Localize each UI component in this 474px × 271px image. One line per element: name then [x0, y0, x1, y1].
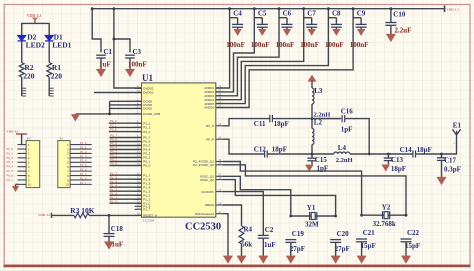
svg-text:P0_0: P0_0 — [7, 147, 14, 151]
svg-text:P2_0: P2_0 — [143, 130, 150, 134]
svg-text:100nF: 100nF — [276, 41, 295, 49]
capacitor C9 100nF — [353, 17, 361, 19]
svg-text:P1_1: P1_1 — [80, 181, 87, 185]
connector J2 body — [58, 141, 70, 188]
wire C21 ground — [361, 242, 363, 256]
wire GND pin group — [110, 100, 142, 102]
svg-text:2.2nH: 2.2nH — [314, 111, 331, 118]
wire branch to C3 — [114, 39, 130, 52]
capacitor C4 100nF — [230, 17, 238, 19]
wire LED supply — [22, 23, 50, 35]
svg-text:C2: C2 — [265, 226, 274, 234]
wire XOSC_Q2 — [223, 180, 336, 216]
wire junction to C16 — [312, 118, 340, 120]
svg-text:P0_4: P0_4 — [7, 165, 14, 169]
ground C6 — [283, 30, 290, 35]
svg-text:P0_3: P0_3 — [7, 160, 14, 164]
ground R4 — [237, 256, 246, 262]
ground C22 — [402, 256, 411, 262]
svg-text:P1_5: P1_5 — [80, 163, 87, 167]
svg-text:C7: C7 — [307, 10, 316, 18]
wire RBIAS — [223, 205, 242, 226]
svg-text:18pF: 18pF — [272, 146, 287, 154]
ground U1 digital — [71, 115, 79, 121]
wire rail drop for C8 — [216, 9, 329, 104]
wire X32K_Q1 — [223, 162, 362, 216]
svg-text:100nF: 100nF — [300, 41, 319, 49]
power port VDD 3.3 (right end of rail) — [444, 5, 446, 12]
svg-text:C14: C14 — [400, 146, 413, 154]
capacitor C18 1uF — [104, 234, 115, 237]
capacitor C17 0.3pF — [441, 154, 443, 157]
wire R1 to pin — [48, 77, 50, 96]
wire DCOUPL — [223, 192, 263, 235]
wire Y1 left — [289, 215, 292, 218]
svg-text:18pF: 18pF — [274, 120, 289, 128]
capacitor C16 1pF — [342, 115, 345, 122]
svg-text:18pF: 18pF — [417, 146, 432, 154]
svg-text:15pF: 15pF — [361, 242, 376, 250]
capacitor C8 100nF — [328, 17, 336, 19]
pin ladder under R1 — [49, 88, 54, 96]
wire C12 to L junction — [267, 153, 312, 155]
svg-text:C16: C16 — [341, 108, 354, 116]
wires P1 port — [110, 174, 142, 176]
svg-text:32.768k: 32.768k — [373, 220, 396, 228]
svg-text:L4: L4 — [338, 144, 347, 152]
wire rail drop for C7 — [216, 9, 304, 100]
svg-text:C12: C12 — [254, 146, 267, 154]
wire VDD to J1 pin1 — [21, 134, 23, 145]
ground C13 — [387, 161, 389, 165]
svg-text:LED1: LED1 — [52, 41, 71, 50]
svg-text:C3: C3 — [133, 48, 142, 56]
svg-text:18pF: 18pF — [391, 165, 406, 173]
svg-text:P0_1: P0_1 — [7, 151, 14, 155]
wire C19 ground — [290, 242, 292, 256]
capacitor C5 100nF — [254, 17, 262, 19]
svg-text:CC2530: CC2530 — [143, 218, 155, 222]
ground C18 — [104, 242, 113, 249]
svg-text:R4: R4 — [244, 226, 253, 234]
capacitor C20 27pF — [334, 215, 337, 218]
svg-text:P1_7: P1_7 — [143, 208, 150, 212]
wire VDD3.3 rail — [92, 8, 445, 10]
svg-text:C10: C10 — [393, 11, 406, 19]
svg-text:Y1: Y1 — [307, 204, 316, 212]
svg-text:CC2530: CC2530 — [185, 222, 221, 233]
wire X32K_Q2 — [223, 165, 406, 215]
wire rail drop for C4 — [216, 9, 230, 88]
ground J1 — [12, 187, 18, 192]
wire RF_N — [223, 119, 270, 126]
svg-text:P1_4: P1_4 — [80, 159, 87, 163]
capacitor C6 100nF — [279, 17, 287, 19]
svg-text:C20: C20 — [337, 230, 350, 238]
svg-text:10: 10 — [28, 183, 32, 187]
svg-text:C1: C1 — [104, 48, 113, 56]
wire J1 pin10 to ground — [16, 183, 18, 185]
wire C20 ground — [335, 242, 337, 256]
svg-text:27pF: 27pF — [290, 245, 305, 253]
resistor R1 220 — [47, 63, 52, 78]
svg-text:P1_0: P1_0 — [80, 141, 87, 145]
svg-text:2.2uF: 2.2uF — [395, 27, 412, 35]
wire rail to C1 — [92, 9, 101, 53]
ground C4 — [234, 30, 241, 35]
diode D1 LED1 — [45, 35, 53, 41]
svg-text:P0_6: P0_6 — [7, 173, 14, 177]
svg-text:32M: 32M — [305, 221, 319, 229]
ground exposed pad — [224, 256, 233, 262]
capacitor C15 1pF — [311, 154, 313, 158]
U1 left pin stubs and labels — [135, 86, 160, 218]
ground C19 — [286, 256, 295, 262]
wire C11 to L junction — [272, 118, 341, 120]
wire C17 to ground — [441, 160, 443, 177]
svg-text:RBIAS: RBIAS — [205, 203, 214, 207]
wire R2 to pin — [21, 77, 23, 96]
capacitor C22 15pF — [405, 214, 408, 217]
wire Y2 link — [362, 214, 406, 216]
svg-text:U1: U1 — [142, 73, 153, 83]
svg-text:P0_0: P0_0 — [110, 162, 117, 166]
wire C16 down to RF line — [345, 119, 370, 154]
ground C8 — [333, 30, 340, 35]
ground C21 — [357, 256, 366, 262]
svg-text:P2_0: P2_0 — [110, 128, 117, 132]
ground C15 — [311, 161, 313, 165]
svg-text:C21: C21 — [363, 229, 376, 237]
svg-text:2.2nH: 2.2nH — [336, 157, 353, 164]
wire C13 to C14 — [388, 153, 413, 155]
resistor R2 220 — [19, 63, 24, 78]
svg-text:RF_P: RF_P — [206, 137, 214, 141]
capacitor C11 18pF — [270, 115, 273, 122]
capacitor C10 2.2uF — [390, 9, 392, 23]
ground C7 — [308, 30, 315, 35]
capacitor C1 1uF — [96, 55, 106, 58]
svg-text:XOSC_Q2: XOSC_Q2 — [200, 178, 215, 182]
capacitor C13 18pF — [387, 154, 389, 158]
svg-text:C8: C8 — [332, 10, 341, 18]
svg-text:P1_3: P1_3 — [80, 154, 87, 158]
svg-text:100nF: 100nF — [251, 41, 270, 49]
connector J1 body — [26, 141, 40, 188]
wire C18 stub — [108, 215, 110, 233]
svg-text:P2_3/X32K_Q2: P2_3/X32K_Q2 — [193, 163, 214, 167]
capacitor C2 1uF — [258, 235, 269, 238]
svg-text:DVDD1: DVDD1 — [143, 91, 154, 95]
wire L3 to junction — [311, 104, 313, 119]
wire rail drop for C9 — [216, 9, 353, 108]
wire DVDD1 — [94, 92, 142, 94]
capacitor C21 15pF — [360, 214, 363, 217]
crystal Y2 32.768k — [383, 211, 390, 219]
ground C10 — [386, 35, 395, 42]
wire R4 to ground — [241, 244, 243, 256]
svg-text:C13: C13 — [391, 156, 404, 164]
inductor L3 2.2nH — [312, 88, 314, 104]
wire rail drop for C6 — [216, 9, 279, 96]
svg-text:C15: C15 — [315, 156, 328, 164]
U1 right pin stubs and labels — [193, 85, 223, 216]
crystal Y1 32M — [310, 212, 317, 220]
svg-text:P1_2: P1_2 — [80, 150, 87, 154]
svg-text:100nF: 100nF — [350, 41, 369, 49]
inductor L4 2.2nH — [312, 153, 334, 155]
power arrow L3 top — [308, 76, 315, 82]
wire rail drop for C5 — [216, 9, 255, 92]
svg-text:AVDD6: AVDD6 — [204, 106, 214, 110]
svg-text:Y2: Y2 — [382, 203, 391, 211]
svg-text:P1_0: P1_0 — [110, 199, 117, 203]
svg-text:220: 220 — [51, 71, 63, 80]
svg-text:27pF: 27pF — [335, 245, 350, 253]
svg-text:GND Exposed: GND Exposed — [195, 212, 215, 216]
svg-text:LED2: LED2 — [26, 41, 45, 50]
svg-text:P1_1: P1_1 — [80, 145, 87, 149]
wire C22 ground — [405, 242, 407, 256]
wire GND to arrow — [75, 113, 141, 115]
wire D2 to R2 — [21, 41, 23, 63]
svg-text:E1: E1 — [453, 121, 462, 129]
ground C1 — [96, 70, 105, 77]
diode D2 LED2 — [18, 35, 26, 41]
wire rail to DVDD2 via x114 — [114, 9, 142, 88]
wire L4 to C13 — [350, 153, 389, 155]
svg-text:C6: C6 — [283, 10, 292, 18]
svg-text:P1_7: P1_7 — [80, 172, 87, 176]
svg-text:1uF: 1uF — [264, 241, 276, 249]
svg-text:10: 10 — [65, 183, 69, 187]
svg-text:P0_2: P0_2 — [7, 156, 14, 160]
wires P0 port — [110, 137, 142, 139]
svg-text:R3 10K: R3 10K — [70, 206, 95, 215]
wire Y1 link — [291, 215, 336, 217]
svg-text:C4: C4 — [233, 10, 242, 18]
svg-text:1pF: 1pF — [341, 126, 353, 134]
svg-text:56k: 56k — [241, 241, 252, 249]
ground C3 — [125, 70, 134, 77]
antenna E1 — [452, 129, 460, 139]
ground C20 — [331, 256, 340, 262]
svg-text:P2: P2 — [27, 137, 31, 141]
svg-text:0.3pF: 0.3pF — [444, 166, 461, 174]
IC U1 CC2530 body — [142, 83, 216, 217]
wire D1 to R1 — [48, 41, 50, 63]
svg-text:100nF: 100nF — [226, 41, 245, 49]
svg-text:DGND: DGND — [143, 107, 153, 111]
svg-text:C5: C5 — [258, 10, 267, 18]
svg-text:C11: C11 — [254, 120, 266, 128]
svg-text:220: 220 — [23, 71, 35, 80]
resistor R3 10K — [74, 213, 89, 218]
ground C17 — [437, 178, 446, 185]
wire XOSC_Q1 — [223, 176, 291, 216]
svg-text:100nF: 100nF — [128, 60, 147, 68]
svg-text:VDD 3.3: VDD 3.3 — [7, 129, 19, 133]
wire GND group tie — [109, 101, 111, 114]
capacitor C12 18pF — [265, 150, 268, 157]
svg-text:P0_7: P0_7 — [7, 178, 14, 182]
ground C9 — [357, 30, 364, 35]
svg-text:15pF: 15pF — [405, 242, 420, 250]
svg-text:P0_0: P0_0 — [143, 164, 150, 168]
capacitor C7 100nF — [304, 17, 312, 19]
svg-text:C19: C19 — [292, 230, 305, 238]
svg-text:VDD 3.3: VDD 3.3 — [447, 8, 459, 12]
wire C2 to ground — [262, 238, 264, 256]
svg-text:C9: C9 — [357, 10, 366, 18]
wire C14 to antenna — [416, 139, 457, 154]
svg-text:L2: L2 — [314, 118, 323, 126]
wire RF_P — [223, 139, 265, 154]
svg-text:L3: L3 — [314, 87, 323, 95]
svg-text:P1_0: P1_0 — [80, 176, 87, 180]
svg-text:VDD 3.3: VDD 3.3 — [27, 13, 42, 18]
capacitor C3 100nF — [125, 55, 135, 58]
capacitor C14 18pF — [413, 150, 416, 157]
svg-text:C22: C22 — [407, 229, 420, 237]
svg-text:DCOUPL: DCOUPL — [201, 190, 214, 194]
svg-text:C18: C18 — [111, 225, 124, 233]
wire GND pad — [223, 214, 228, 257]
ground C2 — [259, 256, 268, 262]
svg-text:DGND_USB: DGND_USB — [143, 112, 160, 116]
svg-text:RF_N: RF_N — [206, 124, 214, 128]
svg-text:RESET_N: RESET_N — [143, 214, 157, 218]
wire R3 to RESET_N — [89, 214, 141, 216]
svg-text:VDD 3.3: VDD 3.3 — [38, 213, 51, 217]
svg-text:100nF: 100nF — [325, 41, 344, 49]
svg-text:C17: C17 — [444, 157, 457, 165]
svg-text:1uF: 1uF — [99, 60, 111, 68]
svg-text:P0_5: P0_5 — [7, 169, 14, 173]
pin ladder under R2 — [22, 88, 27, 96]
svg-text:P1_6: P1_6 — [80, 168, 87, 172]
resistor R4 56k — [239, 226, 244, 244]
wires P2 port — [109, 122, 142, 124]
wire VDD to R3 — [51, 214, 74, 216]
capacitor C19 27pF — [285, 240, 296, 243]
ground C5 — [259, 30, 266, 35]
svg-text:P3: P3 — [60, 137, 64, 141]
